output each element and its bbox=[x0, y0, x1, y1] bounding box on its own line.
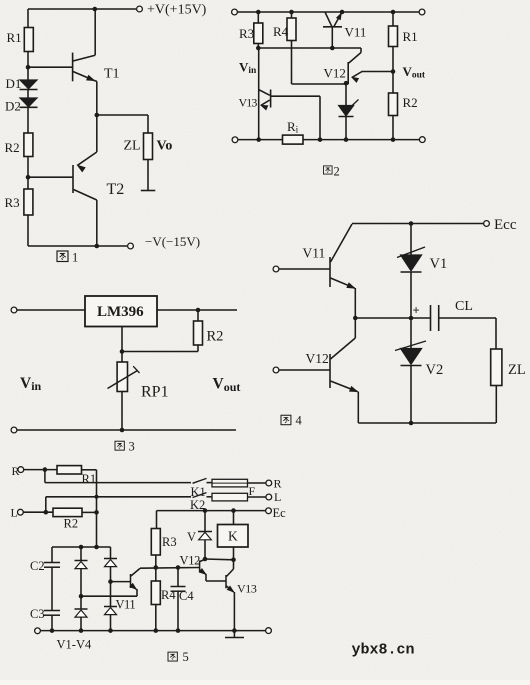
svg-text:RP1: RP1 bbox=[141, 384, 169, 401]
svg-text:V12: V12 bbox=[180, 554, 201, 568]
svg-text:V11: V11 bbox=[345, 25, 367, 40]
svg-text:ZL: ZL bbox=[508, 362, 526, 378]
svg-text:V12: V12 bbox=[324, 66, 346, 81]
svg-text:V13: V13 bbox=[239, 96, 258, 110]
svg-text:D2: D2 bbox=[5, 99, 21, 114]
svg-text:3: 3 bbox=[129, 440, 135, 454]
svg-text:+V(+15V): +V(+15V) bbox=[147, 3, 207, 18]
svg-text:+: + bbox=[413, 304, 420, 318]
svg-text:F: F bbox=[249, 484, 256, 498]
svg-text:C3: C3 bbox=[30, 607, 45, 621]
svg-text:−V(−15V): −V(−15V) bbox=[145, 234, 200, 249]
svg-text:T2: T2 bbox=[107, 181, 125, 198]
svg-text:R1: R1 bbox=[82, 472, 97, 486]
svg-text:Ec: Ec bbox=[273, 506, 287, 520]
svg-text:C2: C2 bbox=[30, 559, 45, 573]
svg-text:V1: V1 bbox=[430, 256, 448, 272]
svg-text:1: 1 bbox=[72, 251, 78, 265]
svg-text:V: V bbox=[187, 530, 196, 544]
svg-text:V11: V11 bbox=[116, 598, 136, 612]
svg-text:ybx8.cn: ybx8.cn bbox=[352, 642, 415, 659]
svg-text:V11: V11 bbox=[303, 246, 326, 261]
svg-text:LM396: LM396 bbox=[97, 304, 144, 320]
svg-text:Vo: Vo bbox=[157, 139, 173, 154]
svg-text:R2: R2 bbox=[207, 329, 224, 345]
svg-text:Ecc: Ecc bbox=[494, 217, 517, 233]
svg-text:R4: R4 bbox=[161, 588, 176, 602]
svg-text:2: 2 bbox=[334, 165, 340, 179]
svg-text:5: 5 bbox=[183, 650, 189, 664]
svg-text:V12: V12 bbox=[306, 351, 329, 366]
svg-text:R3: R3 bbox=[5, 195, 20, 210]
svg-text:V1-V4: V1-V4 bbox=[57, 638, 92, 652]
svg-text:V2: V2 bbox=[426, 362, 444, 378]
svg-text:R1: R1 bbox=[403, 29, 418, 44]
svg-text:T1: T1 bbox=[104, 67, 120, 82]
svg-text:R2: R2 bbox=[403, 95, 418, 110]
svg-text:D1: D1 bbox=[6, 76, 22, 91]
svg-text:R4: R4 bbox=[273, 24, 289, 39]
svg-text:R3: R3 bbox=[239, 26, 254, 41]
svg-text:R2: R2 bbox=[64, 517, 79, 531]
svg-text:CL: CL bbox=[455, 299, 473, 314]
svg-text:4: 4 bbox=[296, 414, 303, 428]
svg-text:R3: R3 bbox=[162, 535, 177, 549]
svg-text:V13: V13 bbox=[237, 582, 257, 596]
svg-text:L: L bbox=[11, 506, 18, 520]
svg-text:L: L bbox=[274, 490, 281, 504]
svg-text:C4: C4 bbox=[179, 589, 194, 603]
svg-text:R1: R1 bbox=[7, 30, 22, 45]
svg-text:K: K bbox=[228, 529, 238, 544]
svg-text:R2: R2 bbox=[5, 140, 20, 155]
svg-text:R: R bbox=[274, 477, 282, 491]
svg-text:ZL: ZL bbox=[124, 139, 141, 154]
